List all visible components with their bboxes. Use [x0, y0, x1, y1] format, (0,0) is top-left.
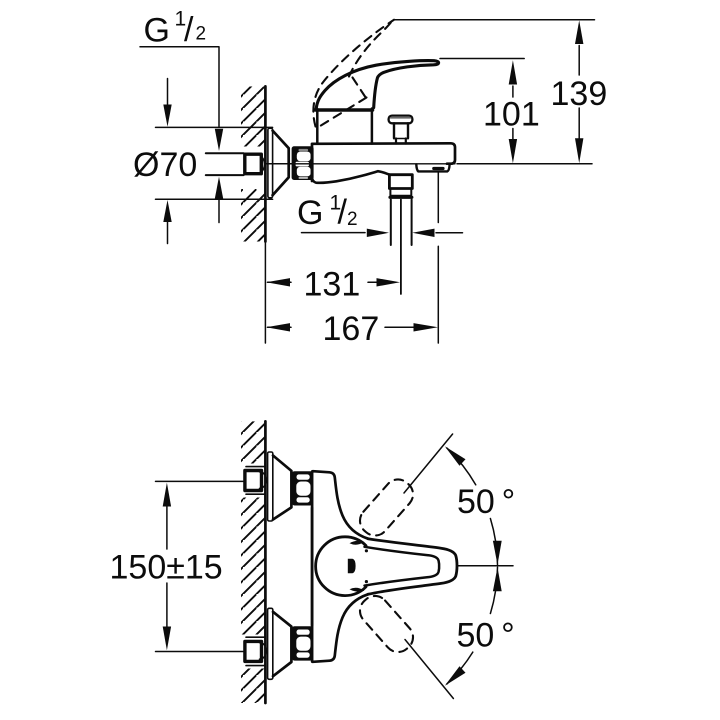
wall line (upper view) — [264, 86, 267, 241]
svg-text:/: / — [338, 194, 348, 232]
handle mounting block — [317, 109, 372, 144]
shower hose connector — [389, 175, 412, 189]
aerator outlet (bottom right of spout) — [416, 165, 449, 172]
50° reference line lower — [405, 640, 453, 699]
lever inner face line (lower view) — [365, 547, 440, 586]
dimension Ø70 : upper arrow — [167, 79, 169, 107]
lever handle raised position (dashed) — [313, 20, 394, 127]
svg-text:50 °: 50 ° — [457, 483, 515, 521]
arc arrowheads — [445, 446, 466, 466]
svg-text:G: G — [297, 194, 323, 232]
wall hatching (upper view) — [236, 86, 265, 241]
lever handle (upper view, solid) — [316, 61, 438, 109]
escutcheon flange lower (lower view) — [268, 608, 273, 679]
supply pipe stub (behind wall) — [206, 152, 244, 154]
dimension 150±15 : extension lines — [156, 480, 244, 482]
dimension 139 — [578, 46, 580, 76]
dimension Ø70 : extension lines — [156, 126, 273, 128]
faucet body (lower view) — [312, 471, 368, 625]
svg-text:G: G — [144, 12, 170, 50]
lens highlight lower — [350, 588, 365, 592]
dimension 167 — [268, 326, 292, 328]
50° reference line upper — [404, 434, 453, 493]
svg-text:139: 139 — [551, 75, 608, 113]
wall hatching (lower view) — [238, 421, 265, 703]
dimension G1/2 (shower outlet) : label — [297, 191, 358, 232]
body bottom edge line — [267, 163, 455, 165]
pipe axis centerline — [266, 163, 313, 165]
dimension 101 — [512, 86, 514, 97]
lever knob circle (lower view) — [316, 537, 366, 596]
handle hole marker (black D) — [348, 559, 356, 573]
diverter knob — [389, 116, 413, 124]
pivot dots — [365, 549, 368, 552]
extension line outlet bottom — [457, 163, 592, 165]
svg-text:2: 2 — [196, 24, 207, 45]
svg-text:131: 131 — [304, 266, 361, 304]
escutcheon cone (upper view) — [273, 131, 289, 196]
escutcheon cone upper (lower view) — [273, 456, 291, 520]
svg-text:50 °: 50 ° — [457, 617, 515, 655]
horizontal centerline (lever axis) — [458, 565, 513, 567]
svg-text:Ø70: Ø70 — [133, 146, 197, 184]
dimension 131 — [268, 281, 292, 283]
union nut upper (lower view) — [292, 471, 313, 505]
extension line from aerator down to 167 dimension — [437, 172, 439, 343]
lever arm outline (lower view) — [368, 539, 457, 595]
dimension G1/2 (wall connection) : label — [144, 8, 207, 50]
50° arc lower (broken around label) — [447, 567, 498, 684]
svg-text:150±15: 150±15 — [110, 548, 223, 586]
square pipe fitting lower (lower view) — [260, 643, 267, 660]
svg-text:101: 101 — [483, 95, 540, 133]
union nut lower (lower view) — [292, 626, 313, 660]
svg-text:/: / — [184, 11, 194, 49]
dimension G1/2 (wall connection) : lower arrow — [218, 200, 220, 223]
shower hose lines — [391, 200, 412, 246]
extension line top (raised lever height) — [394, 19, 594, 21]
dimension 150±15 : dimension line and arrows — [166, 505, 168, 549]
square pipe fitting (upper view) — [261, 156, 265, 173]
dimension G1/2 (shower outlet) : dimension line with arrows — [302, 232, 366, 234]
svg-text:2: 2 — [347, 209, 358, 230]
50° arc upper (broken around label) — [447, 448, 498, 565]
svg-text:167: 167 — [323, 310, 380, 348]
escutcheon flange upper (lower view) — [268, 452, 273, 521]
dimension Ø70 : lower arrow — [167, 220, 169, 244]
faucet body (upper view) — [312, 143, 455, 181]
lever rotated 50° up (dashed) — [354, 474, 418, 658]
extension line from wall down to 131/167 dimension lines — [264, 242, 266, 344]
extension line lever top — [440, 58, 524, 60]
union nut (upper view) — [292, 146, 314, 180]
escutcheon flange (upper view) — [268, 128, 273, 198]
wall line (lower view) — [264, 421, 267, 703]
square pipe fitting upper (lower view) — [260, 472, 267, 489]
dimension G1/2 (wall connection) : leader line — [140, 47, 219, 127]
body underside contour — [312, 171, 389, 183]
lens highlight upper — [350, 541, 365, 545]
escutcheon cone lower (lower view) — [273, 612, 291, 676]
lever rotated 50° down (dashed) — [354, 590, 418, 657]
